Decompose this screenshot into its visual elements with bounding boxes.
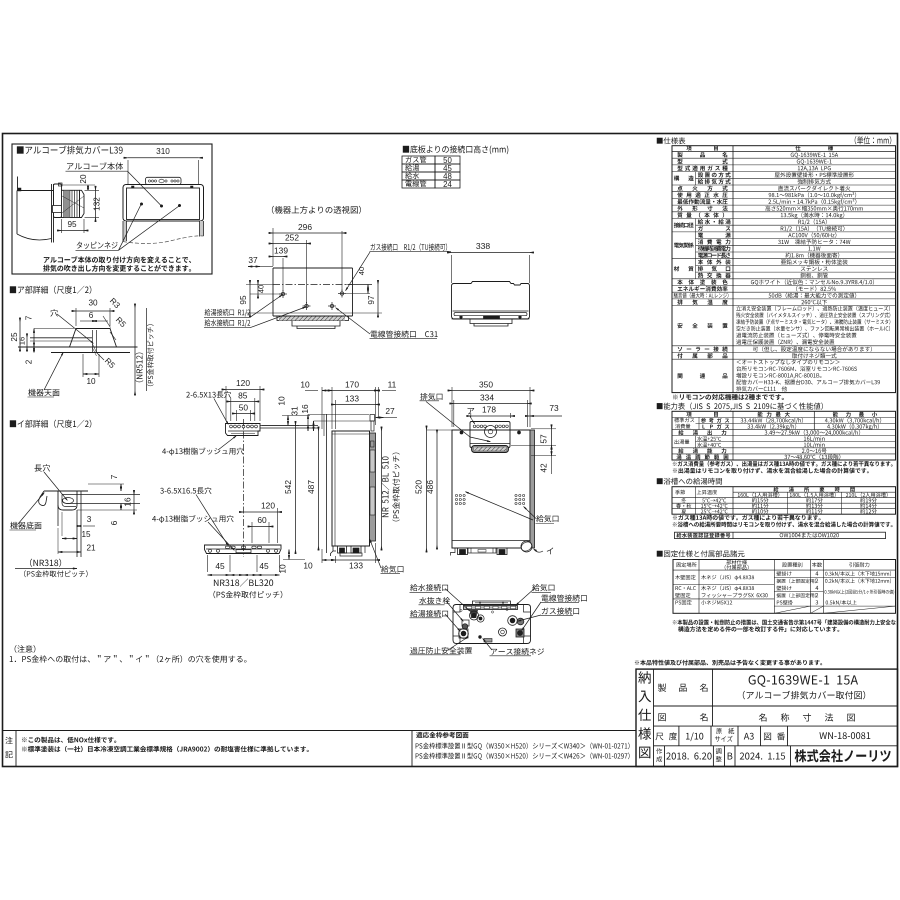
svg-text:120: 120 (236, 378, 250, 388)
fixing table (657, 550, 745, 557)
svg-text:252: 252 (285, 233, 299, 243)
svg-text:73: 73 (549, 403, 559, 413)
sheet frame (3, 134, 898, 767)
port height table (403, 145, 509, 154)
svg-text:95: 95 (239, 295, 248, 305)
svg-text:542: 542 (283, 480, 293, 494)
svg-text:40: 40 (257, 285, 266, 293)
svg-text:16: 16 (18, 337, 27, 345)
top bracket view (226, 424, 261, 436)
svg-text:30: 30 (88, 299, 98, 308)
detail A (10, 286, 92, 294)
svg-text:20: 20 (79, 174, 88, 184)
svg-text:42: 42 (539, 463, 549, 473)
bath table (657, 478, 722, 485)
svg-text:296: 296 (298, 222, 312, 232)
svg-text:95: 95 (67, 220, 77, 229)
svg-text:45: 45 (259, 561, 269, 571)
svg-text:133: 133 (345, 394, 359, 404)
svg-text:350: 350 (479, 380, 493, 390)
svg-text:24: 24 (443, 180, 452, 189)
svg-text:520: 520 (414, 480, 424, 494)
svg-text:132: 132 (93, 197, 102, 211)
bath notes (673, 515, 821, 521)
capacity table (657, 402, 823, 410)
svg-text:57: 57 (539, 434, 549, 444)
title block (635, 660, 822, 666)
note chuui (15, 645, 36, 653)
svg-text:10: 10 (278, 564, 288, 574)
svg-text:486: 486 (425, 480, 435, 494)
svg-text:170: 170 (345, 380, 359, 390)
front view (452, 430, 530, 548)
svg-text:45: 45 (215, 561, 225, 571)
svg-text:487: 487 (306, 480, 316, 494)
svg-text:37: 37 (248, 255, 258, 265)
svg-text:10: 10 (300, 380, 310, 390)
svg-text:16: 16 (124, 497, 133, 507)
svg-text:338: 338 (476, 241, 491, 251)
svg-text:27: 27 (385, 406, 395, 416)
svg-text:10: 10 (86, 377, 96, 386)
svg-text:16: 16 (300, 404, 310, 414)
svg-text:334: 334 (480, 393, 494, 403)
svg-text:310: 310 (156, 147, 170, 156)
svg-text:6: 6 (110, 520, 119, 525)
side view (332, 431, 370, 546)
unit top view (452, 252, 530, 254)
svg-text:85: 85 (238, 391, 248, 401)
svg-text:3: 3 (87, 515, 92, 524)
svg-text:15: 15 (81, 530, 91, 539)
svg-text:21: 21 (86, 544, 96, 553)
capacity notes (673, 461, 893, 467)
spec note (673, 394, 784, 400)
svg-text:139: 139 (274, 246, 288, 256)
alcove cover L39 box (12, 144, 212, 274)
bottom bracket view (205, 545, 282, 554)
spec table (657, 137, 686, 144)
svg-text:120: 120 (261, 501, 275, 511)
certification bar (675, 532, 886, 538)
svg-text:10: 10 (303, 561, 313, 571)
svg-text:6: 6 (89, 311, 94, 320)
detail I (10, 420, 92, 428)
bottom notes strip (3, 730, 637, 732)
perspective top view (272, 206, 361, 214)
svg-text:97: 97 (367, 295, 376, 305)
svg-text:10: 10 (277, 396, 287, 406)
svg-text:133: 133 (349, 561, 363, 571)
svg-text:31: 31 (290, 406, 300, 416)
svg-text:7: 7 (25, 315, 34, 320)
fixing note (673, 619, 896, 625)
svg-text:50: 50 (239, 403, 249, 413)
svg-text:11: 11 (388, 380, 397, 390)
svg-text:178: 178 (482, 405, 496, 415)
svg-text:60: 60 (257, 515, 267, 525)
svg-text:2: 2 (25, 359, 34, 364)
bottom view (453, 605, 531, 644)
svg-text:7: 7 (110, 474, 119, 479)
